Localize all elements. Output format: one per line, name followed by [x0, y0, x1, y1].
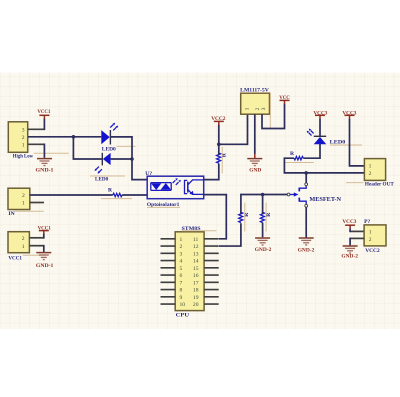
resistor R5 R (gate pull-down)	[260, 203, 271, 232]
resistor R6 R (LED series)	[284, 151, 314, 163]
connector P2 IN	[8, 188, 44, 217]
emission arrows	[173, 180, 179, 185]
right pins 11-20	[204, 239, 219, 304]
power VCC1 (lower)	[38, 225, 51, 234]
ground GND-1 (VCC1 conn)	[36, 253, 54, 269]
svg-text:VCC1: VCC1	[8, 256, 22, 262]
svg-text:GND-1: GND-1	[36, 167, 54, 173]
svg-text:3: 3	[22, 127, 25, 133]
svg-text:2: 2	[369, 237, 372, 243]
resistor R2 R (series input)	[101, 188, 132, 199]
svg-text:1: 1	[22, 142, 25, 148]
internal LED pair	[151, 183, 171, 191]
phototransistor	[185, 180, 188, 193]
svg-text:GND-2: GND-2	[255, 247, 272, 253]
wire branch down to lower LED	[73, 137, 102, 159]
svg-text:6: 6	[180, 273, 183, 279]
svg-text:VCC2: VCC2	[365, 248, 380, 254]
ground GND-2 (pull-down)	[255, 238, 272, 253]
svg-text:VCC1: VCC1	[37, 109, 50, 115]
svg-text:3: 3	[261, 107, 267, 110]
junction gate node	[261, 193, 265, 197]
svg-text:16: 16	[193, 273, 199, 279]
svg-text:1: 1	[22, 244, 25, 250]
ground GND (LM1117)	[247, 154, 262, 174]
wire node down to optoisolator anode	[132, 159, 147, 180]
svg-text:2: 2	[22, 193, 25, 199]
svg-text:12: 12	[193, 244, 199, 250]
svg-text:2: 2	[22, 236, 25, 242]
svg-text:1: 1	[180, 237, 183, 243]
svg-text:VCC: VCC	[279, 95, 290, 101]
svg-text:1: 1	[22, 201, 25, 207]
left pins 1-10	[161, 239, 176, 304]
wire R6 to output node	[284, 158, 365, 173]
wire drain up to output node	[305, 173, 307, 183]
wire LED D2 anode to node	[111, 158, 132, 160]
svg-text:13: 13	[193, 251, 199, 257]
svg-text:Header OUT: Header OUT	[365, 182, 394, 188]
wire IN pin2 to resistor R2	[30, 194, 113, 196]
connector P5 P?	[364, 219, 386, 254]
svg-text:VCC3: VCC3	[313, 110, 327, 116]
power VCC	[279, 95, 290, 104]
svg-text:1: 1	[369, 230, 372, 236]
LED D2 LED0 (points left)	[90, 153, 125, 183]
svg-text:5: 5	[180, 266, 183, 272]
wire source down to ground	[305, 207, 307, 237]
wire opto collector to pull-up	[204, 164, 219, 180]
connector P3 VCC1	[8, 232, 46, 262]
svg-text:STM8S: STM8S	[182, 226, 201, 232]
connector P1 High Low	[8, 122, 69, 160]
svg-text:17: 17	[193, 280, 199, 286]
wire P? pin2 to ground	[350, 237, 364, 239]
wire gate node down through R5 to ground	[262, 195, 264, 238]
svg-text:LED0: LED0	[102, 146, 116, 152]
svg-text:1: 1	[369, 164, 372, 170]
svg-text:2: 2	[369, 171, 372, 177]
wire opto emitter to CPU pin11	[204, 195, 227, 239]
svg-text:MESFET-N: MESFET-N	[309, 197, 341, 203]
junction node LEDs	[130, 157, 134, 161]
svg-text:U?: U?	[145, 171, 152, 177]
wire pin3 to VCC1	[28, 128, 44, 130]
voltage regulator U2 LM1117-5V	[240, 88, 270, 129]
transistor Q1 MESFET-N	[287, 183, 341, 207]
junction	[72, 135, 76, 139]
svg-text:19: 19	[193, 295, 199, 301]
LED D1 LED0 (points right)	[101, 123, 135, 153]
wire pin2 net to LEDs	[28, 136, 101, 138]
svg-text:1: 1	[245, 107, 251, 110]
svg-text:11: 11	[193, 237, 199, 243]
wire VCC1 pin2 to power	[29, 237, 43, 239]
wire VCC2 node to LM1117 pin1	[219, 114, 248, 144]
op-amp U1 Optoisolator1	[145, 171, 203, 208]
svg-text:LED0: LED0	[95, 177, 108, 183]
svg-text:VCC3: VCC3	[342, 110, 356, 116]
svg-text:2: 2	[22, 135, 25, 141]
power VCC3 (LED)	[313, 110, 327, 119]
power VCC3 (header)	[342, 110, 356, 119]
junction output node	[304, 171, 308, 175]
svg-text:2: 2	[180, 244, 183, 250]
wire VCC3 down to Header pin1	[350, 119, 365, 166]
wire LED D3 anode to resistor R6	[303, 144, 320, 158]
power VCC3 (P?)	[342, 219, 356, 229]
pin stub IN pin1	[30, 202, 44, 204]
svg-text:4: 4	[180, 259, 183, 265]
wire R2 to optoisolator cathode	[122, 194, 147, 196]
svg-text:P?: P?	[364, 219, 370, 225]
resistor R4 R (gate series)	[239, 203, 250, 232]
CPU U3 STM8S	[161, 226, 219, 318]
wire VCC3 to LED D3	[319, 119, 321, 137]
wire CPU pin12 to gate resistor	[219, 223, 241, 246]
ground GND-1 (High Low)	[36, 159, 54, 174]
svg-text:GND-2: GND-2	[341, 253, 358, 259]
svg-text:8: 8	[180, 288, 183, 294]
wire VCC3 to P? pin1	[350, 230, 364, 232]
LED D3 LED0 (points up)	[307, 129, 362, 146]
svg-text:2: 2	[255, 107, 261, 110]
svg-text:VCC2: VCC2	[211, 116, 225, 122]
power VCC2	[211, 116, 225, 125]
ground GND-2 (P?)	[341, 246, 358, 259]
wire R4 top to gate line	[241, 195, 288, 214]
wire LM1117 pin2 to GND	[254, 114, 256, 154]
sheet background	[0, 73, 400, 330]
resistor R3 R (pull-up to VCC2)	[217, 147, 228, 174]
svg-text:High Low: High Low	[13, 153, 34, 159]
svg-text:10: 10	[180, 302, 186, 308]
svg-text:9: 9	[180, 295, 183, 301]
svg-text:CPU: CPU	[176, 313, 189, 319]
svg-text:GND-1: GND-1	[36, 263, 54, 269]
svg-text:VCC3: VCC3	[342, 219, 356, 225]
wire VCC1 pin1 to ground	[29, 245, 43, 247]
power VCC1 (top)	[37, 109, 50, 119]
svg-text:15: 15	[193, 266, 199, 272]
connector P4 Header OUT	[346, 159, 394, 188]
junction VCC2 node	[217, 143, 221, 147]
wire LM1117 pin3 to VCC	[262, 104, 285, 129]
svg-text:GND-2: GND-2	[298, 247, 315, 253]
svg-text:20: 20	[193, 302, 199, 308]
wire LED D1 cathode to node	[111, 137, 132, 159]
svg-text:18: 18	[193, 288, 199, 294]
ground GND-2 (source)	[298, 238, 315, 253]
svg-text:GND: GND	[249, 167, 261, 173]
svg-text:VCC1: VCC1	[38, 225, 51, 231]
svg-text:3: 3	[180, 251, 183, 257]
svg-text:14: 14	[193, 259, 199, 265]
wire R3 top to VCC2 junction	[218, 125, 220, 155]
svg-text:7: 7	[180, 280, 183, 286]
svg-text:IN: IN	[8, 211, 14, 217]
wire pin1 to GND-1	[28, 143, 44, 145]
